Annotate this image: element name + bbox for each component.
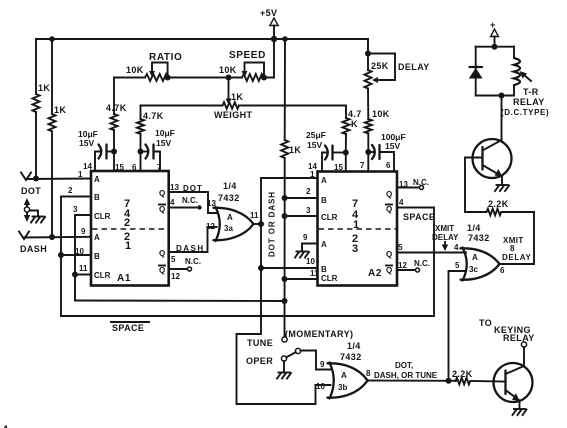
resistor 4.7K (A2 pin15) [343,118,350,134]
svg-text:1K: 1K [231,92,243,102]
svg-text:2.2K: 2.2K [488,199,509,209]
wire A1 pin4 NC stub [169,205,202,209]
wire ratio left lead [114,77,145,79]
wire A2 pin4 SPACE out [397,207,434,209]
svg-text:Q: Q [159,189,165,198]
IC A1 pin name Qbar (top) [159,205,165,215]
node WEIGHT tap junction [226,75,232,81]
svg-text:14: 14 [83,162,92,171]
svg-text:DOT: DOT [183,184,203,193]
wire 1K-A2 drop lower [284,158,286,337]
wire pole to gate3b input9 [301,351,331,370]
wire A2 pin10 from bus [261,267,318,269]
svg-text:10K: 10K [372,109,390,119]
potentiometer RATIO 10K element [145,74,168,81]
diode D1 flyback [469,67,483,79]
svg-text:4: 4 [399,198,404,207]
wire 1K-A2 drop upper [284,39,286,140]
svg-text:Q: Q [159,266,165,275]
potentiometer SPEED wiper bracket [242,63,265,78]
op gate A3c (OR) [461,248,500,281]
resistor 4.7K (pin6 A1) [137,119,144,134]
svg-text:15V: 15V [79,138,94,148]
wire 4.7K to cap node [113,130,115,152]
ground OPER [277,373,291,379]
wire DOT OR DASH bus [237,178,331,404]
svg-text:7432: 7432 [218,193,240,203]
wire A1 pin5 DASH out [169,227,217,252]
node relay bottom junction [499,93,505,99]
svg-text:A: A [472,253,478,262]
svg-text:3: 3 [352,243,358,255]
paddle lever arrows [24,198,30,222]
svg-text:CLR: CLR [94,271,111,280]
potentiometer SPEED 10K element [242,74,264,81]
svg-text:7432: 7432 [468,233,490,243]
svg-text:15: 15 [115,163,124,172]
relay coil K1 [514,47,520,96]
svg-text:3a: 3a [224,224,233,233]
coil pointer arrow [520,71,532,81]
svg-text:N.C.: N.C. [185,257,201,266]
wire CLR feedback line1 [75,300,285,303]
svg-text:Q: Q [386,190,392,199]
svg-text:+5V: +5V [260,8,277,18]
node A2 pin2 junction [282,195,288,201]
svg-text:4.7K: 4.7K [143,111,164,121]
svg-text:Q: Q [386,266,392,275]
contact arrow DASH [19,232,29,240]
wire A2 pin1 from bus [261,177,318,179]
wire relay frame top [476,46,514,48]
svg-text:1K: 1K [54,105,66,115]
node rail-rail2 junction [49,36,55,42]
wire 4.7K#2 to cap node [140,134,142,152]
+ supply arrow [491,29,499,37]
svg-text:12: 12 [398,261,407,270]
XMIT 8 DELAY net label [502,236,531,262]
wire A1 pin3 [75,215,91,301]
svg-text:SPACE: SPACE [403,212,435,222]
svg-text:4: 4 [170,198,175,207]
svg-text:7: 7 [157,163,162,172]
node bus pin10 junction [258,265,264,271]
svg-text:DOT OR DASH: DOT OR DASH [268,191,277,257]
svg-text:CLR: CLR [321,274,338,283]
capacitor C1 10uF [95,145,114,172]
svg-text:A: A [321,176,327,185]
node relay top junction [492,44,498,50]
wire A2 pin11 [285,278,318,280]
svg-text:11: 11 [250,211,259,220]
wire ratio-speed [168,77,242,79]
svg-text:A: A [227,213,233,222]
wire rail1 lower [35,112,37,179]
switch blade [286,352,295,357]
node 100uF/10K/pin7 [365,149,371,155]
capacitor C2 10uF [141,145,161,172]
ground Q2 emitter [513,409,527,415]
svg-text:Q: Q [159,205,165,214]
svg-text:SPACE: SPACE [112,323,144,333]
svg-text:10: 10 [306,257,315,266]
resistor 10K (delay) [365,119,372,133]
svg-text:CLR: CLR [94,212,111,221]
svg-text:TUNE: TUNE [247,338,273,348]
wire +5V stem [273,26,275,40]
node 25uF/4.7K/pin15 [343,150,349,156]
capacitor 100uF label [381,132,406,151]
svg-text:A: A [341,371,347,380]
svg-text:12: 12 [206,222,215,231]
IC A1 pin name Qbar (bottom) [159,266,165,276]
wire relay frame bottom [476,95,514,97]
svg-text:4: 4 [454,243,459,252]
wire gate A3c output to 2.2K [500,212,535,264]
XMIT DELAY input label [432,224,459,242]
resistor 4.7K (pin15 A1) [111,114,118,130]
svg-text:DELAY: DELAY [502,253,531,262]
wire paddle to ground [30,211,38,217]
svg-text:1K: 1K [289,145,301,155]
wire weight line right [239,106,346,119]
wire top +5V rail [36,38,368,40]
wire SPACE feedback line2 [61,208,434,317]
node C1/4.7K/pin15 [111,149,117,155]
SPACE net label with overline [111,322,149,333]
transistor Q1 [473,139,512,185]
resistor 2.2K (Q2 base) [456,378,471,385]
resistor R 1K pullup DOT [33,94,40,112]
svg-text:12: 12 [171,272,180,281]
wire A1 pin11 [75,274,91,276]
svg-text:3b: 3b [338,383,347,392]
IC A2 device number 74123 [352,198,359,255]
svg-text:A1: A1 [117,273,131,284]
svg-text:15V: 15V [307,140,322,150]
capacitor C4 100uF [368,145,394,172]
node SPEED right end [261,75,267,81]
XMIT DELAY pointer arrow [442,242,448,251]
switch pole [295,348,300,353]
wire A1 pin10 [61,254,91,256]
IC A2 pin name Qbar (bottom) [386,266,392,276]
node DOT-OR-DASH junction [258,221,264,227]
svg-text:1/4: 1/4 [223,181,237,191]
resistor 4.7K (A2 pin15) label [348,109,362,129]
svg-text:10μF: 10μF [155,128,175,138]
wire 4.7K#3 to node [345,134,347,153]
svg-text:Q: Q [386,205,392,214]
wire A1 pin12 NC stub [169,267,192,271]
node rail 1K-A2 junction [282,36,288,42]
svg-text:1K: 1K [38,83,50,93]
potentiometer RATIO wiper bracket [149,63,168,78]
potentiometer 25K wiper bracket [368,54,395,84]
svg-text:4.7K: 4.7K [106,103,127,113]
svg-text:OPER: OPER [246,356,273,366]
svg-text:N.C.: N.C. [182,196,198,205]
svg-text:Q: Q [159,249,165,258]
svg-text:B: B [321,196,327,205]
wire node to pin15 [113,152,115,172]
node C2/4.7K/pin6 [138,149,144,155]
contact arrow DOT [21,173,31,181]
wire 2.2K to Q2 base [471,380,506,383]
IC A1 74221 body [91,171,169,286]
svg-text:B: B [94,193,100,202]
node dot-dash-tune junction [446,378,452,384]
IC A2 pin name Qbar (top) [386,205,392,215]
svg-text:CLR: CLR [321,213,338,222]
potentiometer WEIGHT wiper arrow [226,99,232,105]
wire 25K upper lead [367,54,369,71]
wire 2.2K right lead to XMIT gate [502,211,535,213]
wire A1 pin2 [61,197,91,317]
ground Q1 emitter [495,185,509,191]
wire node to A2 pin7 [367,152,369,172]
transistor Q2 [494,363,533,409]
wire A2 pin12 NC stub [397,268,420,272]
svg-text:15V: 15V [385,141,400,151]
svg-text:SPEED: SPEED [229,50,266,61]
svg-text:5: 5 [398,243,403,252]
wire rail1 upper [35,39,37,94]
svg-text:WEIGHT: WEIGHT [214,110,252,120]
TO KEYING RELAY label [479,318,535,343]
wire Q1 base [465,158,483,213]
svg-text:A2: A2 [368,268,382,279]
wire A2 pin13 NC stub [397,186,424,190]
svg-text:(MOMENTARY): (MOMENTARY) [285,329,353,339]
IC A1 device number 74221 [124,198,131,252]
svg-text:DELAY: DELAY [432,233,459,242]
svg-text:15V: 15V [156,138,171,148]
wire rail2 lower [51,131,53,237]
wire to gate3c input5 riser [449,271,467,381]
wire ratio to 4.7K [113,78,115,115]
svg-text:8: 8 [510,244,515,253]
wire 2.2K left lead [465,211,487,213]
op gate A3a (OR) [214,207,254,241]
node DASH line junction [49,234,55,240]
node rail +5V junction [271,36,277,42]
wire + stem [494,37,496,47]
node A1 pin10 junction [58,252,64,258]
svg-text:9: 9 [303,233,308,242]
svg-text:TO: TO [479,318,492,328]
node 25K top junction [365,51,371,57]
svg-text:9: 9 [320,360,325,369]
wire DASH line [24,236,91,239]
svg-text:RELAY: RELAY [503,333,535,343]
svg-text:1/4: 1/4 [467,223,481,233]
svg-text:T-R: T-R [523,87,539,97]
svg-text:6: 6 [500,266,505,275]
svg-text:3c: 3c [469,265,478,274]
wire A1 pin13 DOT out [169,192,217,213]
svg-text:DOT: DOT [21,186,41,196]
IC A2 divider [319,228,397,230]
wire Q2 collector [523,347,525,366]
svg-text:1: 1 [78,170,83,179]
wire 10K to node [367,133,369,152]
wire gate A3a output [254,223,262,225]
switch TUNE contact [282,337,287,342]
svg-text:7: 7 [360,161,365,170]
svg-text:5: 5 [455,261,460,270]
svg-text:2: 2 [124,217,130,229]
capacitor C3 25uF [322,146,346,172]
svg-text:RATIO: RATIO [149,52,182,63]
svg-text:10K: 10K [219,65,237,75]
svg-text:4: 4 [2,424,9,428]
wire rail2 upper [51,39,53,114]
svg-text:Q: Q [386,250,392,259]
svg-text:DOT,: DOT, [395,361,413,370]
wire weight line left [141,105,223,107]
svg-text:7432: 7432 [340,352,362,362]
svg-text:6: 6 [386,161,391,170]
svg-text:A: A [94,175,100,184]
node A1 pin11 junction [72,272,78,278]
+5V arrow [270,18,278,26]
op gate A3b (OR) [328,363,368,399]
svg-text:6: 6 [132,163,137,172]
resistor 2.2K (Q1 base) [487,209,502,216]
wire relay to Q1 collector [501,96,503,141]
wire node to pin6 [140,152,142,172]
svg-text:DELAY: DELAY [398,62,430,72]
wire A2 pin3 [285,215,318,217]
svg-text:5: 5 [171,255,176,264]
svg-text:B: B [321,265,327,274]
switch OPER contact [281,356,286,361]
ground paddle [31,217,45,223]
svg-text:4.7: 4.7 [348,109,362,119]
potentiometer 25K DELAY element [365,70,372,88]
node A2 pin11 junction [282,276,288,282]
svg-text:10K: 10K [126,65,144,75]
svg-text:25μF: 25μF [306,130,326,140]
svg-text:8: 8 [366,369,371,378]
wire A2 pin5 to gate3c input4 [397,252,466,254]
svg-text:DASH: DASH [20,244,47,254]
wire node to A2 pin15 [345,153,347,172]
resistor R 1K pullup DASH [49,114,56,131]
potentiometer WEIGHT 1K element [223,102,239,109]
node CLR line junction [282,298,288,304]
svg-text:10: 10 [316,382,325,391]
svg-text:N.C.: N.C. [414,259,430,268]
svg-text:1/4: 1/4 [347,341,361,351]
resistor 1K (A2 pullup) [281,140,288,158]
wire OPER to ground [283,361,285,372]
svg-text:2: 2 [68,186,73,195]
svg-text:1: 1 [353,219,359,231]
IC A1 divider [92,228,168,230]
ground A2 pin9 [295,252,309,258]
svg-text:XMIT: XMIT [435,224,454,233]
capacitor 25uF label [306,130,326,150]
node RATIO right end [165,75,171,81]
svg-text:(D.C.TYPE): (D.C.TYPE) [501,108,549,117]
svg-text:3: 3 [73,205,78,214]
svg-text:A: A [94,233,100,242]
svg-text:A: A [321,240,327,249]
terminal to keying relay [521,342,526,347]
wire weight line to 4.7K#2 [140,106,142,120]
svg-text:RELAY: RELAY [513,97,545,107]
wire WEIGHT wiper drop [228,78,230,100]
wire DOT line [26,178,91,181]
svg-text:25K: 25K [371,61,389,71]
svg-text:1: 1 [125,240,131,252]
wire 25K to 10K [367,88,369,119]
node DOT line junction [33,176,39,182]
svg-text:13: 13 [170,183,179,192]
wire A2 pin2 [285,197,318,199]
svg-text:2: 2 [306,187,311,196]
svg-text:B: B [94,252,100,261]
wire A2 pin9 to ground [302,244,318,252]
svg-text:11: 11 [79,264,88,273]
svg-text:DASH, OR TUNE: DASH, OR TUNE [374,371,438,380]
svg-text:9: 9 [81,227,86,236]
25K DELAY pot: feed from rail [367,39,369,54]
wire gate A3b output [368,380,457,382]
wire speed to +5V riser [264,39,274,78]
svg-text:3: 3 [306,206,311,215]
wire relay frame left [475,47,477,96]
node A2 pin3 junction [282,213,288,219]
IC A2 74123 body [318,172,398,286]
svg-text:K: K [351,119,358,129]
